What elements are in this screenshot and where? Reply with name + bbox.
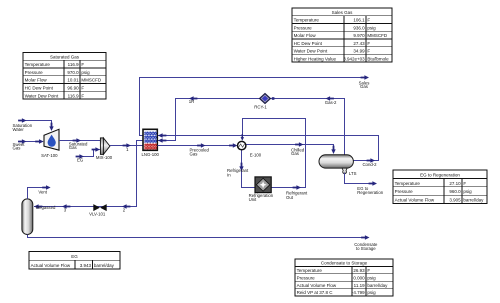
svg-text:34.99: 34.99 <box>353 49 365 54</box>
stream arrow Refrigerant Out <box>293 185 301 189</box>
stream arrow 3 <box>62 204 70 208</box>
label LNG-100 <box>141 152 159 157</box>
svg-text:Molar Flow: Molar Flow <box>25 78 48 83</box>
wire: Cond-2 line (LTS liquid up and across to LNG-100 right port) <box>158 136 379 161</box>
table: EG <box>29 252 120 270</box>
svg-text:psig: psig <box>81 70 90 75</box>
stream arrow Sweet Gas <box>18 139 26 143</box>
svg-text:27.43: 27.43 <box>353 41 365 46</box>
table: Saturated Gas <box>23 53 106 100</box>
svg-text:to Storage: to Storage <box>356 246 376 251</box>
svg-text:F: F <box>367 41 370 46</box>
separator LTS <box>319 155 353 174</box>
valve VLV-101 <box>93 204 106 211</box>
label Sales Gas <box>359 81 370 90</box>
label EG <box>77 157 84 162</box>
svg-text:F: F <box>81 62 84 67</box>
svg-text:Out: Out <box>286 195 294 200</box>
svg-text:E-100: E-100 <box>250 152 262 157</box>
label Saturated Gas <box>69 141 88 150</box>
wire: Chilled Gas (E-100 to LTS) <box>246 145 334 153</box>
saturator SAT-100 <box>44 129 59 150</box>
wire: recycle line (Gas-2 riser across RCY-1 down to LNG-100 cold inlet) <box>158 99 345 155</box>
label Sweet Gas <box>13 142 26 151</box>
wire: stream 1 (MIX-100 to LNG-100 hot inlet) <box>110 145 143 147</box>
table: Condensate to Storage <box>295 259 393 296</box>
arrow into E-100 left <box>229 143 237 147</box>
svg-text:Sales Gas: Sales Gas <box>332 10 354 15</box>
label Gas-2 <box>325 100 337 105</box>
svg-text:3.943: 3.943 <box>80 263 92 268</box>
svg-text:Water Dew Point: Water Dew Point <box>25 93 59 98</box>
svg-text:Actual Volume Flow: Actual Volume Flow <box>395 198 435 203</box>
svg-text:F: F <box>81 86 84 91</box>
label Refrigeration Unit <box>249 193 274 202</box>
svg-text:SAT-100: SAT-100 <box>41 153 58 158</box>
svg-text:Water Dew Point: Water Dew Point <box>294 49 328 54</box>
svg-text:barrel/day: barrel/day <box>94 263 115 268</box>
svg-text:LNG-100: LNG-100 <box>141 152 159 157</box>
svg-text:EG to Regeneration: EG to Regeneration <box>420 172 460 177</box>
wire: Precooled Gas (LNG-100 to E-100) <box>158 145 237 147</box>
svg-text:EG: EG <box>77 157 84 162</box>
arrow into LNG-100 right liquid port <box>158 133 166 137</box>
wire: Sales Gas line (LNG-100 out, up and across to Sales Gas) <box>140 78 362 136</box>
svg-text:MIX-100: MIX-100 <box>96 155 113 160</box>
svg-text:Actual Volume Flow: Actual Volume Flow <box>31 263 71 268</box>
wire: Saturation Water feed line <box>19 121 52 130</box>
cooler E-100 <box>238 141 246 149</box>
svg-text:936.0: 936.0 <box>353 25 365 30</box>
stream arrow Refrigerant In <box>239 163 243 171</box>
svg-text:26.93: 26.93 <box>353 268 365 273</box>
label 3 <box>64 207 67 212</box>
svg-text:EG: EG <box>71 254 78 259</box>
svg-text:Unit: Unit <box>249 197 257 202</box>
svg-text:Temperature: Temperature <box>25 62 51 67</box>
svg-text:psig: psig <box>367 290 376 295</box>
stream arrow 1R <box>189 96 197 100</box>
svg-text:Temperature: Temperature <box>395 181 421 186</box>
svg-text:barrel/day: barrel/day <box>367 283 388 288</box>
wire: EG feed line into mixer <box>77 150 100 157</box>
table: EG to Regeneration <box>393 170 487 204</box>
label 2 <box>123 208 126 213</box>
label E-100 <box>250 152 262 157</box>
svg-text:Saturated Gas: Saturated Gas <box>50 54 80 59</box>
svg-text:10.01: 10.01 <box>67 78 79 83</box>
svg-text:3.942e+03: 3.942e+03 <box>343 56 365 61</box>
svg-text:HC Dew Point: HC Dew Point <box>294 41 323 46</box>
svg-text:psig: psig <box>367 25 376 30</box>
svg-text:960.0: 960.0 <box>449 189 461 194</box>
svg-text:psig: psig <box>463 189 472 194</box>
svg-text:Cond-2: Cond-2 <box>362 162 377 167</box>
svg-text:Molar Flow: Molar Flow <box>294 33 317 38</box>
svg-text:MMSCFD: MMSCFD <box>367 33 387 38</box>
stream arrow Cond-2 <box>367 158 375 162</box>
arrow into SAT-100 left <box>35 139 43 143</box>
svg-text:F: F <box>81 93 84 98</box>
svg-text:LTS: LTS <box>349 171 357 176</box>
svg-text:0.000: 0.000 <box>353 275 365 280</box>
wire: Refrigerant Out (refrigeration unit back to E-100 top) <box>243 119 306 188</box>
label EG to Regeneration <box>357 186 383 195</box>
wire: EG to Regeneration (LTS boot down and right) <box>345 173 370 184</box>
arrow into LTS top <box>331 146 335 154</box>
svg-text:RCY-1: RCY-1 <box>254 105 267 110</box>
label VLV-101 <box>89 212 106 217</box>
stream arrow Saturation Water <box>18 118 26 122</box>
svg-text:Condensate to Storage: Condensate to Storage <box>321 261 368 266</box>
stream arrow Vent <box>42 185 50 189</box>
stream arrow EG <box>76 154 84 158</box>
label 1 <box>126 147 129 152</box>
stream arrow Gas-2 <box>326 96 334 100</box>
svg-text:Temperature: Temperature <box>297 268 323 273</box>
stream arrow Saturated Gas <box>73 138 81 142</box>
label SAT-100 <box>41 153 58 158</box>
svg-text:Gas: Gas <box>291 151 299 156</box>
svg-text:Pressure: Pressure <box>297 275 316 280</box>
svg-text:psig: psig <box>367 275 376 280</box>
label Precooled Gas <box>190 148 210 157</box>
stream arrow EG to Regeneration <box>369 181 377 185</box>
svg-text:VLV-101: VLV-101 <box>89 212 106 217</box>
svg-text:Btu/lbmole: Btu/lbmole <box>367 56 389 61</box>
svg-text:116.9: 116.9 <box>68 93 79 98</box>
svg-text:Pressure: Pressure <box>25 70 44 75</box>
svg-text:Gas: Gas <box>360 84 368 89</box>
svg-text:Vent: Vent <box>38 190 47 195</box>
svg-text:barrel/day: barrel/day <box>463 198 484 203</box>
label Cond-2 <box>362 162 377 167</box>
stream arrow Chilled Gas <box>295 142 303 146</box>
wire: Refrigerant In (E-100 bottom to refrigeration unit) <box>242 150 255 188</box>
svg-text:-4.799: -4.799 <box>352 290 365 295</box>
svg-text:F: F <box>367 49 370 54</box>
svg-text:970.0: 970.0 <box>67 70 79 75</box>
label Chilled Gas <box>291 147 305 156</box>
svg-text:Gas: Gas <box>13 145 21 150</box>
label LTS <box>349 171 357 176</box>
svg-text:Gas-2: Gas-2 <box>325 100 337 105</box>
svg-text:Reid VP at 37.8 C: Reid VP at 37.8 C <box>297 290 334 295</box>
degasser vessel <box>22 199 33 235</box>
svg-text:Regeneration: Regeneration <box>357 190 383 195</box>
wire: Vent (degasser top) <box>28 188 44 199</box>
stream arrow 1 <box>123 143 131 147</box>
wire: Sweet Gas feed line <box>18 141 43 143</box>
svg-text:11.19: 11.19 <box>354 283 365 288</box>
mixer MIX-100 <box>100 138 110 155</box>
svg-text:F: F <box>367 268 370 273</box>
label Saturation Water <box>13 123 33 132</box>
svg-text:Pressure: Pressure <box>395 189 414 194</box>
svg-text:F: F <box>367 18 370 23</box>
svg-text:Gas: Gas <box>190 151 198 156</box>
stream arrow Sales Gas <box>361 75 369 79</box>
label Vent <box>38 190 47 195</box>
label Refrigerant Out <box>286 190 308 200</box>
svg-text:1R: 1R <box>189 99 195 104</box>
arrow into SAT-100 top <box>49 123 53 131</box>
svg-text:Temperature: Temperature <box>294 18 320 23</box>
svg-text:3.905: 3.905 <box>449 198 461 203</box>
svg-text:F: F <box>463 181 466 186</box>
arrow into MIX-100 lower port <box>92 147 100 151</box>
arrow into LNG-100 right gas port <box>158 138 166 142</box>
stream arrow Degassed (into degasser) <box>34 204 42 208</box>
label Condensate to Storage <box>354 242 378 251</box>
svg-text:Pressure: Pressure <box>294 25 313 30</box>
arrow into E-100 top <box>241 134 245 141</box>
label Degassed <box>36 205 56 210</box>
svg-text:96.90: 96.90 <box>67 86 79 91</box>
wire: Saturated Gas (SAT-100 to MIX-100) <box>59 140 101 142</box>
stream arrow Precooled Gas <box>197 143 205 147</box>
svg-text:27.10: 27.10 <box>449 181 461 186</box>
svg-text:106.1: 106.1 <box>353 18 365 23</box>
svg-text:Gas: Gas <box>69 145 77 150</box>
refrigeration unit <box>255 177 271 193</box>
stream arrow 2 <box>122 204 130 208</box>
heat exchanger LNG-100 <box>143 129 157 150</box>
label 1R <box>189 99 195 104</box>
svg-text:Water: Water <box>13 127 25 132</box>
stream arrow Condensate to Storage <box>361 235 369 239</box>
svg-text:Degassed: Degassed <box>36 205 56 210</box>
recycle RCY-1 <box>259 93 275 105</box>
label MIX-100 <box>96 155 113 160</box>
wire: stream 2 (LNG-100 liquid out, down to valve line into degasser) <box>34 141 143 207</box>
svg-text:HC Dew Point: HC Dew Point <box>25 86 54 91</box>
svg-text:9.970: 9.970 <box>353 33 365 38</box>
wire: Condensate to Storage (degasser bottom across page) <box>28 235 362 238</box>
label RCY-1 <box>254 105 267 110</box>
svg-text:116.9: 116.9 <box>68 62 79 67</box>
svg-text:In: In <box>227 172 231 177</box>
svg-text:MMSCFD: MMSCFD <box>81 78 101 83</box>
table: Sales Gas <box>292 8 392 62</box>
svg-text:Higher Heating Value: Higher Heating Value <box>294 56 337 61</box>
label Refrigerant In <box>227 168 249 178</box>
svg-text:Actual Volume Flow: Actual Volume Flow <box>297 283 337 288</box>
